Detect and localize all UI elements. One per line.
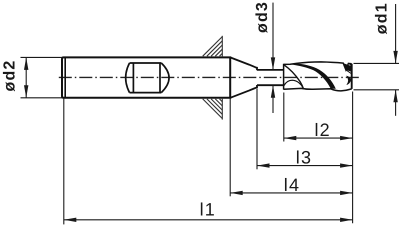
svg-text:l4: l4 <box>284 175 300 195</box>
svg-text:ød3: ød3 <box>254 1 271 33</box>
svg-text:ød1: ød1 <box>374 2 391 34</box>
svg-text:l3: l3 <box>296 148 312 168</box>
svg-text:l2: l2 <box>314 120 330 140</box>
svg-text:ød2: ød2 <box>1 59 18 91</box>
svg-text:l1: l1 <box>200 200 216 220</box>
